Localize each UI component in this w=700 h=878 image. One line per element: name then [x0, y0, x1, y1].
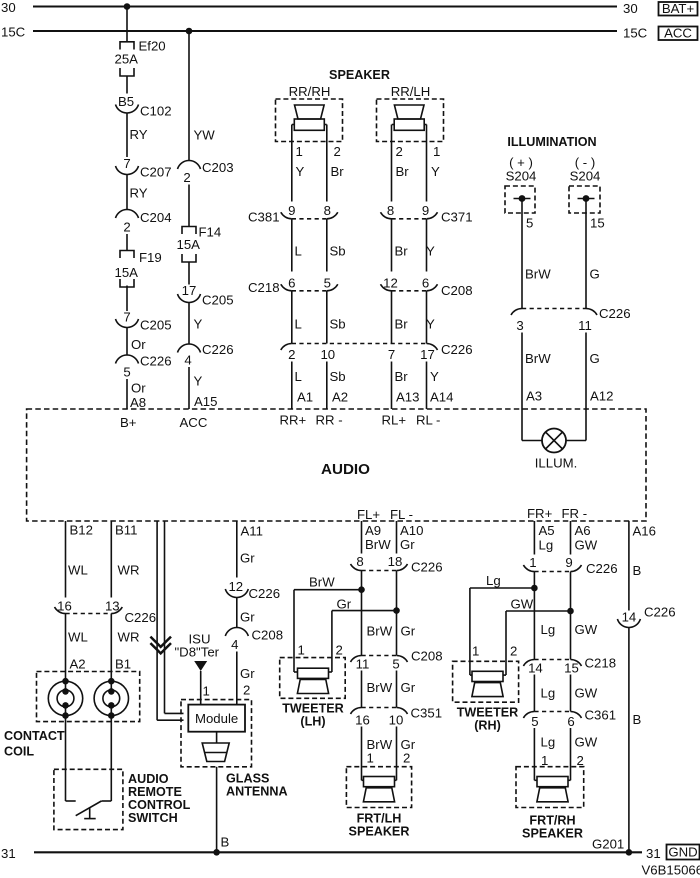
wire Gr audio A11 to C226-12 — [237, 521, 263, 578]
svg-text:15C: 15C — [623, 26, 648, 41]
svg-text:Sb: Sb — [330, 369, 346, 384]
wire Y C205 to C226 — [189, 303, 203, 345]
contact coil box — [37, 672, 140, 722]
wire B audio A16 to C226-14 — [629, 521, 656, 611]
svg-text:GW: GW — [575, 622, 598, 637]
svg-text:2: 2 — [403, 751, 410, 766]
connector C361 pins 5,6 — [523, 708, 616, 730]
svg-text:AUDIO: AUDIO — [321, 461, 370, 478]
svg-text:C218: C218 — [585, 656, 617, 671]
twisted pair chevron marks — [150, 637, 171, 654]
svg-text:5: 5 — [123, 365, 130, 380]
svg-text:31: 31 — [1, 846, 16, 861]
svg-text:RR+: RR+ — [280, 413, 307, 428]
svg-text:BAT+: BAT+ — [662, 1, 695, 16]
audio unit U1 (head unit) — [27, 409, 646, 521]
svg-text:Br: Br — [396, 164, 410, 179]
splice S204 (-) — [569, 155, 600, 213]
svg-text:L: L — [295, 244, 302, 259]
svg-text:AUDIO: AUDIO — [128, 772, 169, 786]
antenna module U2 — [188, 705, 245, 732]
svg-text:BrW: BrW — [365, 537, 391, 552]
fuse F14 15A — [177, 225, 222, 263]
svg-text:TWEETER: TWEETER — [282, 702, 344, 716]
connector C381 pins 9,8 — [248, 203, 338, 225]
svg-text:FRT/RH: FRT/RH — [529, 814, 575, 828]
svg-text:1: 1 — [296, 144, 303, 159]
svg-text:RR/RH: RR/RH — [289, 84, 331, 99]
svg-text:"D8"Ter: "D8"Ter — [175, 645, 220, 660]
svg-text:WR: WR — [118, 563, 140, 578]
svg-text:BrW: BrW — [367, 624, 393, 639]
svg-text:15: 15 — [564, 661, 579, 676]
svg-text:GW: GW — [575, 735, 598, 750]
svg-text:G: G — [590, 267, 600, 282]
svg-text:C226: C226 — [125, 610, 157, 625]
wire GW C226 to C218-15 — [570, 572, 572, 660]
svg-text:3: 3 — [516, 318, 523, 333]
bus 15C (ACC) — [1, 25, 698, 41]
svg-text:6: 6 — [567, 714, 574, 729]
svg-text:12: 12 — [383, 276, 398, 291]
svg-text:17: 17 — [420, 347, 435, 362]
svg-text:B: B — [633, 712, 642, 727]
svg-text:2: 2 — [336, 643, 343, 658]
svg-text:5: 5 — [324, 276, 331, 291]
tweeter RH — [453, 661, 519, 732]
svg-text:Lg: Lg — [486, 573, 501, 588]
svg-text:7: 7 — [123, 156, 130, 171]
wire L C381-9 to C218-6 — [292, 219, 302, 272]
svg-text:5: 5 — [526, 216, 533, 231]
svg-text:Gr: Gr — [401, 624, 416, 639]
wire Or pin A8 to audio unit B+ — [127, 379, 146, 410]
svg-text:A8: A8 — [130, 395, 146, 410]
svg-text:Module: Module — [195, 711, 238, 726]
connector C226 pin 4 — [178, 342, 234, 368]
svg-text:C218: C218 — [248, 280, 280, 295]
svg-text:Br: Br — [395, 369, 409, 384]
wire G pin A12 to audio illum- — [586, 333, 613, 410]
svg-text:S204: S204 — [506, 169, 537, 184]
wire BrW pin A3 to audio illum+ — [522, 333, 551, 410]
svg-text:ILLUMINATION: ILLUMINATION — [507, 135, 596, 149]
svg-text:G201: G201 — [592, 837, 624, 852]
svg-text:Y: Y — [430, 369, 439, 384]
svg-text:FL+: FL+ — [357, 507, 380, 522]
svg-text:YW: YW — [194, 128, 216, 143]
svg-text:5: 5 — [392, 657, 399, 672]
wire Gr C226 to C208 — [237, 598, 255, 628]
svg-text:RL+: RL+ — [382, 413, 407, 428]
junction on bus 30 — [124, 3, 131, 10]
svg-text:30: 30 — [623, 1, 638, 16]
labels BrW Gr above C208 — [367, 624, 416, 639]
svg-text:FR -: FR - — [562, 506, 588, 521]
svg-text:12: 12 — [228, 579, 243, 594]
connector C204 pin 2 — [116, 210, 172, 235]
svg-text:1: 1 — [203, 684, 210, 699]
wire Y C208 to C226 — [426, 291, 435, 344]
wire Gr C226 to C208-5 — [396, 571, 398, 656]
wire L pin A1 to audio RR+ — [292, 362, 313, 410]
svg-text:BrW: BrW — [309, 575, 335, 590]
svg-text:Br: Br — [395, 317, 409, 332]
svg-text:Y: Y — [194, 374, 203, 389]
svg-text:F14: F14 — [199, 225, 222, 240]
label GLASS ANTENNA — [226, 772, 288, 799]
svg-text:TWEETER: TWEETER — [457, 706, 519, 720]
wire Sb C381-8 to C218-5 — [327, 219, 346, 272]
wire Lg audio A5 to C226-1 — [534, 521, 554, 555]
svg-text:7: 7 — [388, 347, 395, 362]
svg-text:A3: A3 — [526, 389, 542, 404]
wire Gr C208 to module pin 2 — [237, 652, 255, 705]
svg-text:GW: GW — [575, 686, 598, 701]
svg-text:Y: Y — [296, 164, 305, 179]
svg-text:Y: Y — [426, 317, 435, 332]
wire BrW S204 pin 5 to C226-3 — [522, 199, 551, 309]
svg-text:A14: A14 — [430, 390, 453, 405]
svg-text:25A: 25A — [115, 52, 139, 67]
svg-text:C208: C208 — [441, 283, 473, 298]
junction glass antenna ground — [213, 849, 220, 856]
svg-text:C361: C361 — [585, 708, 617, 723]
svg-text:2: 2 — [123, 220, 130, 235]
connector C218 pins 14,15 — [523, 656, 616, 676]
wire Br C208 to C226 — [392, 291, 409, 344]
svg-text:15A: 15A — [115, 265, 139, 280]
svg-text:F19: F19 — [139, 250, 162, 265]
wire Y pin A15 to audio unit ACC — [189, 367, 217, 409]
svg-text:RY: RY — [130, 127, 148, 142]
svg-text:GND: GND — [668, 845, 697, 860]
wire Gr C351 to FRT/LH pin 2 — [397, 727, 416, 781]
svg-text:GW: GW — [575, 538, 598, 553]
svg-text:1: 1 — [529, 555, 536, 570]
svg-text:ACC: ACC — [180, 415, 208, 430]
junction tweeter LH + tap — [358, 586, 365, 593]
connector C226 pins 2,10,7,17 — [281, 342, 473, 362]
svg-text:RL -: RL - — [416, 413, 440, 428]
wire Gr audio A10 to C226-18 — [397, 521, 424, 554]
svg-text:C226: C226 — [644, 605, 676, 620]
svg-text:REMOTE: REMOTE — [128, 785, 182, 799]
svg-text:FL -: FL - — [390, 507, 413, 522]
wire BrW C351 to FRT/LH pin 1 — [362, 727, 393, 781]
svg-text:A5: A5 — [539, 523, 555, 538]
svg-text:A1: A1 — [297, 390, 313, 405]
svg-text:2: 2 — [288, 347, 295, 362]
svg-text:G: G — [590, 351, 600, 366]
svg-text:2: 2 — [243, 683, 250, 698]
svg-text:A11: A11 — [241, 524, 264, 539]
svg-text:1: 1 — [367, 751, 374, 766]
svg-text:C208: C208 — [252, 628, 284, 643]
wire WR C226 to contact coil B1 — [111, 614, 139, 682]
svg-text:1: 1 — [298, 643, 305, 658]
svg-text:A10: A10 — [400, 523, 423, 538]
svg-text:4: 4 — [231, 637, 238, 652]
wire Lg C226 to C218-14 — [533, 572, 535, 660]
connector C226 pin 12 — [225, 579, 280, 601]
connector C226 pins 3,11 — [511, 306, 631, 333]
svg-text:Gr: Gr — [337, 597, 352, 612]
svg-text:Ef20: Ef20 — [139, 39, 166, 54]
svg-text:C226: C226 — [441, 342, 473, 357]
wire Y pin A14 to audio RL- — [427, 362, 454, 410]
connector C205 pin 17 — [178, 283, 234, 308]
wire B C226 to ground bus G201 — [629, 628, 642, 853]
wire Gr tap to tweeter LH pin 2 — [332, 597, 397, 673]
wire Lg C218 to C361-5 — [534, 675, 555, 712]
svg-text:FRT/LH: FRT/LH — [357, 812, 402, 826]
glass antenna box — [181, 700, 252, 767]
svg-text:Lg: Lg — [541, 735, 556, 750]
svg-text:(RH): (RH) — [474, 719, 501, 733]
svg-text:B1: B1 — [115, 657, 131, 672]
fuse Ef20 25A — [115, 39, 166, 77]
svg-text:RY: RY — [130, 186, 148, 201]
connector C208 pin 4 — [225, 628, 283, 653]
svg-text:9: 9 — [565, 555, 572, 570]
wire BrW C226 to C208-11 — [361, 571, 363, 656]
svg-text:Y: Y — [426, 244, 435, 259]
twisted pair audio to antenna module — [157, 521, 183, 720]
glass antenna element — [202, 732, 229, 762]
svg-text:ANTENNA: ANTENNA — [226, 785, 288, 799]
svg-text:8: 8 — [324, 203, 331, 218]
svg-text:RR -: RR - — [316, 413, 343, 428]
connector C203 pin 2 — [178, 160, 234, 185]
svg-text:C204: C204 — [140, 210, 172, 225]
svg-text:C351: C351 — [411, 706, 443, 721]
svg-text:V6B15066: V6B15066 — [642, 863, 700, 878]
svg-text:SWITCH: SWITCH — [128, 811, 178, 825]
svg-text:Or: Or — [131, 381, 146, 396]
wire Sb C218 to C226 — [327, 291, 346, 344]
audio pin labels bottom — [357, 506, 587, 522]
svg-text:11: 11 — [578, 318, 592, 333]
connector C218 pins 6,5 — [248, 276, 338, 296]
junction tweeter LH - tap — [393, 607, 400, 614]
svg-text:COIL: COIL — [4, 745, 34, 759]
svg-text:WL: WL — [68, 630, 88, 645]
wire Br speaker RR/RH pin 2 — [327, 125, 344, 202]
wire RY C207 to C204 — [127, 175, 148, 210]
svg-text:15A: 15A — [177, 237, 201, 252]
svg-text:CONTROL: CONTROL — [128, 798, 191, 812]
svg-text:11: 11 — [356, 657, 370, 672]
svg-text:Gr: Gr — [401, 680, 416, 695]
svg-text:SPEAKER: SPEAKER — [522, 827, 583, 841]
svg-text:C226: C226 — [140, 354, 172, 369]
audio remote control switch S1 — [54, 769, 123, 829]
svg-text:5: 5 — [531, 714, 538, 729]
svg-text:C371: C371 — [441, 210, 473, 225]
svg-text:WR: WR — [118, 630, 140, 645]
front speaker FRT/LH — [346, 767, 411, 839]
svg-text:ACC: ACC — [664, 26, 692, 41]
wire WL C226 to contact coil A2 — [66, 614, 88, 682]
svg-text:10: 10 — [320, 347, 335, 362]
svg-text:Y: Y — [431, 164, 440, 179]
svg-text:B11: B11 — [115, 523, 138, 538]
wire Y C371-9 to C208-6 — [426, 219, 435, 272]
svg-text:Br: Br — [331, 164, 345, 179]
speaker RR/LH — [377, 84, 444, 142]
svg-text:SPEAKER: SPEAKER — [329, 68, 390, 82]
wire Gr C208 to C351-10 — [397, 671, 416, 708]
svg-text:BrW: BrW — [525, 351, 551, 366]
svg-text:C102: C102 — [140, 104, 172, 119]
svg-text:BrW: BrW — [525, 267, 551, 282]
wire F14 to C205 — [188, 262, 190, 285]
wire L C218 to C226 — [292, 291, 302, 344]
svg-text:18: 18 — [388, 554, 403, 569]
svg-text:GLASS: GLASS — [226, 772, 269, 786]
fuse F19 15A — [115, 250, 162, 287]
wire G S204 pin 15 to C226-11 — [586, 199, 605, 309]
wire contact coil to switch — [65, 705, 67, 801]
svg-text:B+: B+ — [120, 415, 137, 430]
wire RY C102 to C207 — [127, 113, 148, 157]
svg-text:C226: C226 — [586, 561, 618, 576]
svg-text:S204: S204 — [570, 169, 601, 184]
svg-text:Gr: Gr — [240, 610, 255, 625]
wire Lg C361 to FRT/RH pin 1 — [534, 728, 555, 780]
svg-text:C226: C226 — [249, 586, 281, 601]
connector C226 pin 14 — [617, 605, 675, 628]
connector C102 pin B5 — [116, 94, 172, 119]
wire Lg tap to tweeter RH pin 1 — [470, 573, 535, 675]
svg-text:B12: B12 — [70, 523, 93, 538]
svg-text:2: 2 — [334, 144, 341, 159]
svg-text:SPEAKER: SPEAKER — [349, 825, 410, 839]
bus 31 (GND) — [1, 845, 700, 862]
svg-text:Y: Y — [194, 317, 203, 332]
wire WR audio B11 to C226-13 — [111, 521, 139, 598]
svg-text:Lg: Lg — [541, 686, 556, 701]
svg-text:30: 30 — [1, 0, 16, 15]
junction tweeter RH + tap — [531, 585, 538, 592]
svg-text:Br: Br — [395, 244, 409, 259]
wire GW tap to tweeter RH pin 2 — [506, 597, 571, 676]
svg-text:14: 14 — [622, 610, 637, 625]
wire Y speaker RR/RH pin 1 — [292, 125, 305, 202]
svg-text:C205: C205 — [202, 293, 234, 308]
svg-text:1: 1 — [472, 644, 479, 659]
svg-text:A13: A13 — [396, 390, 419, 405]
svg-text:9: 9 — [288, 203, 295, 218]
svg-text:RR/LH: RR/LH — [391, 84, 431, 99]
svg-text:L: L — [295, 317, 302, 332]
wire C203 to fuse F14 — [188, 185, 190, 227]
svg-text:ILLUM.: ILLUM. — [535, 456, 578, 471]
connector C208 pins 11,5 — [351, 649, 443, 672]
tweeter LH — [280, 658, 346, 729]
contact coil right — [94, 678, 128, 719]
wire WL audio B12 to C226-16 — [66, 521, 93, 598]
wire BrW audio A9 to C226-8 — [362, 521, 392, 554]
wire GW audio A6 to C226-9 — [571, 521, 598, 555]
svg-text:B: B — [633, 563, 642, 578]
svg-text:A15: A15 — [194, 394, 217, 409]
connector C371 pins 8,9 — [381, 203, 473, 225]
junction on bus 15C — [186, 28, 193, 35]
wire BrW C208 to C351-16 — [362, 671, 393, 708]
connector C207 pin 7 — [116, 156, 172, 180]
connector C351 pins 16,10 — [351, 706, 443, 728]
svg-text:A2: A2 — [332, 390, 348, 405]
svg-text:Gr: Gr — [240, 666, 255, 681]
svg-text:L: L — [295, 369, 302, 384]
connector C226 pin 5 — [116, 354, 172, 380]
wire Br C371-8 to C208-12 — [392, 219, 409, 272]
label CONTACT COIL — [4, 729, 65, 759]
svg-text:17: 17 — [182, 283, 197, 298]
connector C226 pins 1,9 — [523, 555, 617, 576]
wire Sb pin A2 to audio RR- — [327, 362, 348, 410]
svg-text:C226: C226 — [202, 342, 234, 357]
svg-text:6: 6 — [422, 276, 429, 291]
wire GW C218 to C361-6 — [571, 675, 598, 712]
audio pin labels top — [120, 413, 440, 431]
svg-text:(LH): (LH) — [300, 715, 325, 729]
svg-text:1: 1 — [433, 144, 440, 159]
svg-text:Or: Or — [131, 337, 146, 352]
svg-text:A9: A9 — [365, 523, 381, 538]
wire YW bus15C to C203 — [189, 31, 215, 161]
svg-text:14: 14 — [528, 661, 543, 676]
connector C208 pins 12,6 — [381, 276, 473, 299]
svg-text:Sb: Sb — [330, 317, 346, 332]
svg-text:C208: C208 — [411, 649, 443, 664]
connector C226 pins 16,13 — [55, 599, 157, 626]
svg-text:15C: 15C — [1, 25, 26, 40]
svg-text:2: 2 — [510, 644, 517, 659]
svg-text:2: 2 — [396, 144, 403, 159]
svg-text:BrW: BrW — [367, 680, 393, 695]
svg-text:6: 6 — [288, 276, 295, 291]
wire B glass antenna to ground bus — [217, 767, 230, 853]
svg-text:C207: C207 — [140, 165, 172, 180]
splice S204 (+) — [505, 155, 536, 213]
svg-text:B5: B5 — [118, 94, 134, 109]
wire Y speaker RR/LH pin 1 — [427, 125, 441, 202]
svg-text:10: 10 — [389, 713, 404, 728]
svg-text:A16: A16 — [633, 524, 656, 539]
speaker RR/RH — [276, 84, 343, 142]
label AUDIO REMOTE CONTROL SWITCH — [128, 772, 191, 825]
svg-text:B: B — [221, 835, 230, 850]
svg-text:8: 8 — [356, 554, 363, 569]
wire bus30 to fuse Ef20 — [126, 7, 128, 42]
svg-text:31: 31 — [646, 846, 661, 861]
front speaker FRT/RH — [516, 767, 584, 841]
wire Br speaker RR/LH pin 2 — [392, 125, 410, 202]
svg-text:C205: C205 — [140, 318, 172, 333]
svg-text:2: 2 — [577, 753, 584, 768]
wire F19 to C205 — [126, 286, 128, 312]
svg-text:A6: A6 — [575, 523, 591, 538]
labels Lg GW above C218 — [541, 622, 598, 637]
svg-text:Sb: Sb — [330, 244, 346, 259]
wire BrW tap to tweeter LH pin 1 — [294, 575, 362, 673]
svg-text:Gr: Gr — [240, 551, 255, 566]
svg-text:Gr: Gr — [400, 537, 415, 552]
wire Or C205 to C226 — [127, 328, 146, 356]
